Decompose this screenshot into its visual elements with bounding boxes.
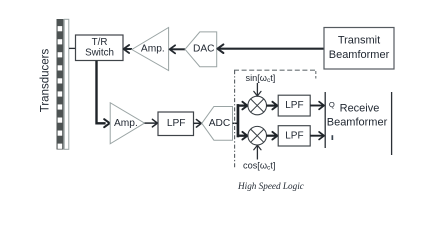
- dashed boundary vertical (high speed logic): [234, 70, 236, 168]
- svg-text:LPF: LPF: [167, 118, 186, 129]
- wire mixer1 to LPF2: [267, 102, 278, 110]
- svg-text:Q: Q: [329, 100, 335, 109]
- wire LPF3 to receive bus I: [310, 132, 324, 140]
- block T/R Switch: [76, 35, 124, 61]
- svg-text:LPF: LPF: [285, 130, 303, 141]
- svg-text:ADC: ADC: [209, 118, 231, 129]
- wire branch to mixer2: [239, 132, 247, 140]
- mixer M1: [248, 96, 267, 115]
- wire LPF2 to receive bus Q: [310, 102, 324, 110]
- svg-text:Transmit: Transmit: [338, 35, 380, 47]
- branch bar node: [237, 104, 240, 137]
- svg-text:cos[ωct]: cos[ωct]: [243, 161, 275, 172]
- wire cos to mixer2: [254, 145, 261, 159]
- DAC converter: [185, 32, 217, 67]
- svg-text:Amp.: Amp.: [114, 118, 138, 129]
- wire DAC to amp1: [170, 45, 185, 53]
- receive bus right bar: [391, 92, 393, 155]
- svg-text:Amp.: Amp.: [141, 44, 165, 55]
- wire transmit beamformer to DAC: [217, 44, 324, 53]
- svg-text:Switch: Switch: [85, 48, 114, 59]
- block LPF1: [158, 112, 194, 136]
- svg-text:Beamformer: Beamformer: [329, 49, 390, 61]
- dashed boundary right corner tick: [315, 71, 317, 79]
- svg-text:Beamformer: Beamformer: [327, 116, 388, 128]
- wire branch to mixer1: [239, 102, 247, 110]
- transducer lens strip: [64, 19, 69, 149]
- block LPF2: [278, 95, 310, 116]
- dashed boundary horizontal (high speed logic): [234, 69, 316, 71]
- svg-text:Transducers: Transducers: [40, 49, 52, 113]
- wire sin to mixer1: [254, 83, 261, 96]
- transducer array bar: [57, 19, 64, 150]
- mixer M2: [248, 126, 267, 145]
- label I: [332, 135, 334, 140]
- wire LPF1 to ADC: [194, 120, 202, 128]
- svg-text:sin[ωct]: sin[ωct]: [246, 73, 276, 84]
- svg-text:High Speed Logic: High Speed Logic: [237, 181, 304, 191]
- svg-text:Receive: Receive: [340, 103, 380, 115]
- label Receive Beamformer: [327, 103, 388, 129]
- receive bus left bar: [324, 92, 326, 148]
- svg-text:LPF: LPF: [285, 100, 303, 111]
- block LPF3: [278, 126, 310, 146]
- svg-text:DAC: DAC: [193, 44, 215, 55]
- block Transmit Beamformer: [324, 28, 394, 70]
- wire T/R switch down to amp2: [97, 61, 110, 128]
- wire array to T/R switch: [69, 47, 76, 49]
- wire mixer2 to LPF3: [267, 132, 278, 140]
- amplifier Amp1 (transmit): [132, 28, 169, 71]
- ADC converter: [202, 107, 233, 141]
- amplifier Amp2 (receive): [110, 103, 144, 144]
- wire amp2 to LPF1: [145, 119, 158, 127]
- wire ADC to branch bar: [233, 122, 238, 124]
- wire amp1 to T/R switch: [124, 45, 132, 53]
- svg-text:T/R: T/R: [92, 37, 108, 48]
